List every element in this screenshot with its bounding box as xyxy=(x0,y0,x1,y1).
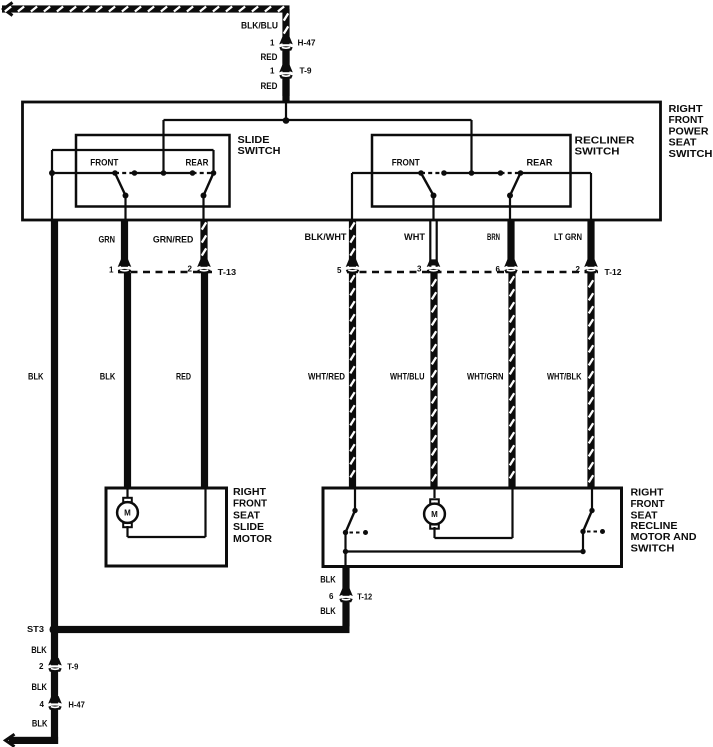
connector T-9 (ground) xyxy=(47,658,63,672)
label BLK/BLU xyxy=(241,21,278,31)
wire recline ground bus xyxy=(346,532,586,555)
label RIGHT FRONT SEAT SLIDE MOTOR xyxy=(233,487,273,545)
svg-text:M: M xyxy=(431,510,438,519)
svg-text:BLK: BLK xyxy=(32,719,48,729)
svg-text:GRN: GRN xyxy=(99,235,116,245)
connector H-47 (top) xyxy=(278,37,294,68)
svg-text:GRN/RED: GRN/RED xyxy=(153,235,194,245)
pin 2 (T-12) xyxy=(576,265,581,274)
wire RED (between H-47 and T-9) xyxy=(282,50,289,68)
label T-13 xyxy=(218,267,237,277)
box SLIDE SWITCH xyxy=(76,135,230,207)
pin 1 (T-13) xyxy=(109,265,114,274)
svg-text:MOTOR: MOTOR xyxy=(233,534,273,545)
wire slide front output xyxy=(124,196,126,221)
label RED xyxy=(261,52,278,62)
label RED (slide motor) xyxy=(176,371,191,381)
connector T-12 pin 2 xyxy=(583,259,599,273)
svg-text:FRONT: FRONT xyxy=(90,157,118,167)
svg-text:RED: RED xyxy=(176,371,191,381)
wire recliner left feed xyxy=(352,173,421,220)
svg-text:BLK/WHT: BLK/WHT xyxy=(305,232,347,242)
label WHT/BLK xyxy=(547,371,582,381)
wire BLK to ground (bottom corner) xyxy=(9,737,58,744)
wire internal feed bus xyxy=(164,102,472,173)
svg-text:SEAT: SEAT xyxy=(631,510,658,521)
wire BLK/WHT xyxy=(349,220,356,268)
connector T-12 (ground) xyxy=(338,588,354,626)
pin 2 (T-9 ground) xyxy=(39,662,44,671)
switch slide FRONT contact row xyxy=(115,172,214,174)
wire BLK (ST3 to ground) xyxy=(51,633,58,744)
svg-text:RECLINE: RECLINE xyxy=(631,521,678,532)
svg-text:REAR: REAR xyxy=(527,158,553,168)
svg-text:T-13: T-13 xyxy=(218,267,237,277)
connector T-12 pin 3 xyxy=(426,259,442,273)
svg-text:RIGHT: RIGHT xyxy=(631,487,664,498)
box RECLINER SWITCH xyxy=(372,135,571,207)
node ST3 splice xyxy=(50,625,60,635)
connector T-9 (top) xyxy=(278,65,294,96)
label BLK (bottom) xyxy=(32,719,48,729)
svg-text:5: 5 xyxy=(337,266,342,275)
connector T-13 pin 2 xyxy=(196,259,212,273)
box RIGHT FRONT POWER SEAT SWITCH xyxy=(23,102,661,220)
motor M1 (slide) xyxy=(117,498,138,527)
svg-text:RIGHT: RIGHT xyxy=(669,104,703,115)
svg-text:LT GRN: LT GRN xyxy=(554,232,582,242)
wire GRN/RED xyxy=(200,220,207,268)
wire recline left to bus xyxy=(343,533,348,567)
wire slide rear feed xyxy=(52,150,214,173)
svg-text:FRONT: FRONT xyxy=(669,115,704,126)
svg-text:2: 2 xyxy=(39,662,44,671)
wire recliner front output xyxy=(432,196,434,221)
wire slide left feed to BLK xyxy=(52,150,115,220)
svg-text:SLIDE: SLIDE xyxy=(233,522,264,533)
svg-text:1: 1 xyxy=(109,265,114,274)
svg-text:RECLINER: RECLINER xyxy=(575,135,636,146)
label FRONT (recliner) xyxy=(392,158,420,168)
svg-text:6: 6 xyxy=(496,265,501,274)
svg-text:BLK: BLK xyxy=(32,682,48,692)
label ST3 xyxy=(27,625,45,634)
svg-text:H-47: H-47 xyxy=(298,38,316,48)
label REAR (slide) xyxy=(186,157,209,167)
label H-47 (ground) xyxy=(68,700,85,710)
svg-text:BRN: BRN xyxy=(487,232,500,242)
svg-text:M: M xyxy=(124,508,131,517)
node slide row dots xyxy=(112,170,216,176)
label BLK (above T-12) xyxy=(320,575,336,585)
label BLK (left) xyxy=(28,371,44,381)
node slide left junction xyxy=(49,170,55,176)
connector T-13 dashed line xyxy=(118,271,212,273)
label FRONT (slide) xyxy=(90,157,118,167)
box RIGHT FRONT SEAT SLIDE MOTOR xyxy=(106,488,227,566)
switch arm recliner front xyxy=(421,173,437,199)
pin 4 (H-47 ground) xyxy=(40,700,45,709)
svg-text:H-47: H-47 xyxy=(68,700,85,710)
label T-9 xyxy=(300,66,312,76)
svg-text:WHT/RED: WHT/RED xyxy=(308,371,345,381)
label T-9 (ground) xyxy=(67,662,78,672)
svg-text:SWITCH: SWITCH xyxy=(575,147,620,158)
wire recliner right feed xyxy=(521,173,592,220)
switch arm slide front xyxy=(115,173,129,199)
svg-text:POWER: POWER xyxy=(669,126,710,137)
svg-text:T-12: T-12 xyxy=(357,592,372,602)
wire recline motor return xyxy=(435,489,513,538)
pin 3 (T-12) xyxy=(417,265,422,274)
wire BLK to slide motor xyxy=(124,273,131,488)
wire recline limit switch right lead xyxy=(591,488,593,511)
switch arm slide rear xyxy=(201,173,214,199)
svg-text:RIGHT: RIGHT xyxy=(233,487,266,498)
pin 6 (T-12 ground) xyxy=(329,592,334,601)
label REAR (recliner) xyxy=(527,158,553,168)
svg-text:WHT/GRN: WHT/GRN xyxy=(467,371,504,381)
wire RED into switch box xyxy=(261,79,290,103)
svg-text:SWITCH: SWITCH xyxy=(238,146,281,157)
svg-text:BLK/BLU: BLK/BLU xyxy=(241,21,278,31)
wire slide motor return xyxy=(128,489,206,537)
wire recline motor positive lead xyxy=(433,488,435,498)
wire arrow (off-page, bottom left) xyxy=(6,734,15,746)
svg-text:6: 6 xyxy=(329,592,334,601)
svg-text:2: 2 xyxy=(188,265,193,274)
label GRN xyxy=(99,235,116,245)
svg-text:SLIDE: SLIDE xyxy=(238,135,270,146)
node feed junction xyxy=(283,117,290,124)
svg-text:SEAT: SEAT xyxy=(669,138,697,149)
label RIGHT FRONT SEAT RECLINE MOTOR AND SWITCH xyxy=(631,487,697,554)
label WHT/BLU xyxy=(390,371,425,381)
box RIGHT FRONT SEAT RECLINE MOTOR AND SWITCH xyxy=(323,488,622,567)
connector T-12 dashed line xyxy=(347,271,598,273)
pin 1 (H-47) xyxy=(270,39,275,48)
svg-text:RED: RED xyxy=(261,81,278,91)
label RECLINER SWITCH xyxy=(575,135,636,157)
svg-text:BLK: BLK xyxy=(320,575,336,585)
wire recliner rear output xyxy=(509,196,511,221)
svg-text:RED: RED xyxy=(261,52,278,62)
svg-text:WHT/BLK: WHT/BLK xyxy=(547,371,582,381)
svg-text:2: 2 xyxy=(576,265,581,274)
pin 5 (T-12) xyxy=(337,266,342,275)
wire GRN xyxy=(121,220,128,268)
svg-text:SWITCH: SWITCH xyxy=(631,544,675,555)
svg-text:BLK: BLK xyxy=(31,645,47,655)
switch recliner contact row xyxy=(421,172,521,174)
svg-text:T-9: T-9 xyxy=(67,662,78,672)
label LT GRN xyxy=(554,232,582,242)
wire arrow (off-page, top left) xyxy=(4,3,13,16)
wire RED to slide motor xyxy=(201,273,208,488)
label WHT/GRN xyxy=(467,371,504,381)
wire BLK below recline box xyxy=(342,567,349,595)
wire BLK (left, to ST3) xyxy=(51,220,58,630)
wire WHT/RED xyxy=(349,273,356,488)
svg-text:T-9: T-9 xyxy=(300,66,312,76)
connector T-12 pin 5 xyxy=(345,259,361,273)
svg-text:3: 3 xyxy=(417,265,422,274)
wire WHT/GRN xyxy=(508,273,515,488)
svg-text:FRONT: FRONT xyxy=(392,158,420,168)
wire slide rear output xyxy=(202,196,204,221)
pin 2 (T-13) xyxy=(188,265,193,274)
connector H-47 (ground) xyxy=(47,696,63,710)
svg-text:ST3: ST3 xyxy=(27,625,45,634)
label WHT xyxy=(404,232,426,242)
label RIGHT FRONT POWER SEAT SWITCH xyxy=(669,104,713,160)
switch recline right limit xyxy=(580,508,605,534)
svg-text:REAR: REAR xyxy=(186,157,209,167)
pin 6 (T-12) xyxy=(496,265,501,274)
svg-text:WHT/BLU: WHT/BLU xyxy=(390,371,425,381)
connector T-12 pin 6 xyxy=(503,259,519,273)
wire WHT/BLU xyxy=(430,273,437,488)
svg-text:FRONT: FRONT xyxy=(233,499,267,510)
node recliner row dots xyxy=(418,170,523,176)
motor M2 (recline) xyxy=(424,499,445,528)
label H-47 xyxy=(298,38,316,48)
label SLIDE SWITCH xyxy=(238,135,281,157)
svg-text:BLK: BLK xyxy=(320,606,336,616)
label T-12 xyxy=(605,267,622,277)
svg-text:1: 1 xyxy=(270,39,275,48)
pin 1 (T-9) xyxy=(270,67,275,76)
svg-text:BLK: BLK xyxy=(28,371,44,381)
svg-text:1: 1 xyxy=(270,67,275,76)
svg-text:SWITCH: SWITCH xyxy=(669,149,713,160)
wire BRN xyxy=(507,220,514,268)
wire slide motor positive lead xyxy=(126,488,128,497)
label BLK (between T-9 and H-47) xyxy=(32,682,48,692)
wire recline limit switch left lead xyxy=(354,488,356,511)
wire WHT (hollow) xyxy=(430,220,436,268)
svg-text:WHT: WHT xyxy=(404,232,426,242)
label BLK (slide motor) xyxy=(100,371,116,381)
label GRN/RED xyxy=(153,235,194,245)
svg-text:SEAT: SEAT xyxy=(233,510,260,521)
wire BLK/BLU horizontal (battery feed) xyxy=(2,5,290,12)
label WHT/RED xyxy=(308,371,345,381)
svg-text:T-12: T-12 xyxy=(605,267,622,277)
svg-text:BLK: BLK xyxy=(100,371,116,381)
switch arm recliner rear xyxy=(507,173,521,199)
switch recline left limit xyxy=(343,508,368,535)
svg-text:MOTOR AND: MOTOR AND xyxy=(631,532,697,543)
label BLK (below ST3) xyxy=(31,645,47,655)
svg-text:FRONT: FRONT xyxy=(631,499,665,510)
label T-12 (ground) xyxy=(357,592,372,602)
wire WHT/BLK xyxy=(587,273,594,488)
label BLK/WHT xyxy=(305,232,347,242)
wire BLK/BLU vertical drop xyxy=(282,9,289,42)
wire BLK ground bus horizontal xyxy=(55,626,350,633)
label BRN xyxy=(487,232,500,242)
wire LT GRN xyxy=(587,220,594,268)
svg-text:4: 4 xyxy=(40,700,45,709)
connector T-13 pin 1 xyxy=(117,259,133,273)
label BLK (below T-12) xyxy=(320,606,336,616)
